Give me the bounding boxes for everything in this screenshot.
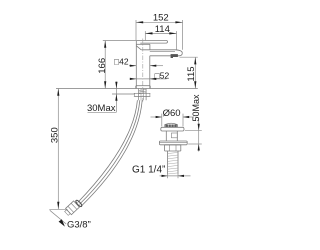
label square-52 body width — [130, 70, 170, 80]
dimension G1 1/4 thread — [132, 164, 191, 178]
dimension 50Max — [185, 94, 202, 152]
dimension diameter 60 — [151, 108, 195, 126]
svg-text:G3/8”: G3/8” — [67, 219, 91, 230]
faucet body column — [136, 41, 150, 89]
G3/8 label and leader arrow — [50, 210, 91, 230]
hose end connector G3/8 fitting — [64, 199, 83, 216]
body base collar — [136, 86, 151, 89]
faucet spout — [142, 50, 183, 56]
body centerline — [142, 39, 144, 102]
label square-42 body width — [114, 56, 163, 66]
dimension 152 top — [136, 13, 183, 50]
deck / counter top line — [56, 88, 198, 90]
svg-text:G1 1/4”: G1 1/4” — [132, 164, 165, 175]
svg-text:115: 115 — [186, 66, 197, 81]
spout aerator — [171, 54, 178, 58]
svg-text:166: 166 — [97, 58, 108, 74]
drain neck with overflow slot — [166, 131, 177, 141]
svg-text:30Max: 30Max — [87, 103, 116, 114]
deck bottom line — [112, 93, 135, 95]
dimension 115 right vertical — [180, 57, 198, 88]
dimension 350 left vertical — [49, 89, 67, 210]
drain threaded tail — [168, 151, 179, 174]
drain lock nut — [165, 145, 181, 151]
svg-text:Ø60: Ø60 — [163, 108, 181, 119]
drain pop-up cap — [165, 123, 178, 127]
mounting washer and nut — [134, 93, 150, 96]
dimension 114 — [145, 24, 176, 50]
svg-text:50Max: 50Max — [191, 94, 201, 122]
svg-text:152: 152 — [153, 13, 169, 24]
drain flange — [161, 127, 184, 131]
dimension 166 left vertical — [97, 41, 136, 89]
svg-text:114: 114 — [155, 24, 170, 35]
svg-text:350: 350 — [49, 127, 60, 143]
faucet lever handle — [136, 41, 167, 44]
svg-text:□42: □42 — [114, 56, 129, 66]
drain seal washer stack — [159, 141, 187, 145]
flexible supply hose (3 lines) — [78, 100, 143, 206]
threaded shank — [139, 89, 147, 101]
svg-text:□52: □52 — [155, 70, 170, 80]
dimension 30Max — [87, 82, 118, 115]
faucet cartridge cap — [136, 44, 150, 50]
